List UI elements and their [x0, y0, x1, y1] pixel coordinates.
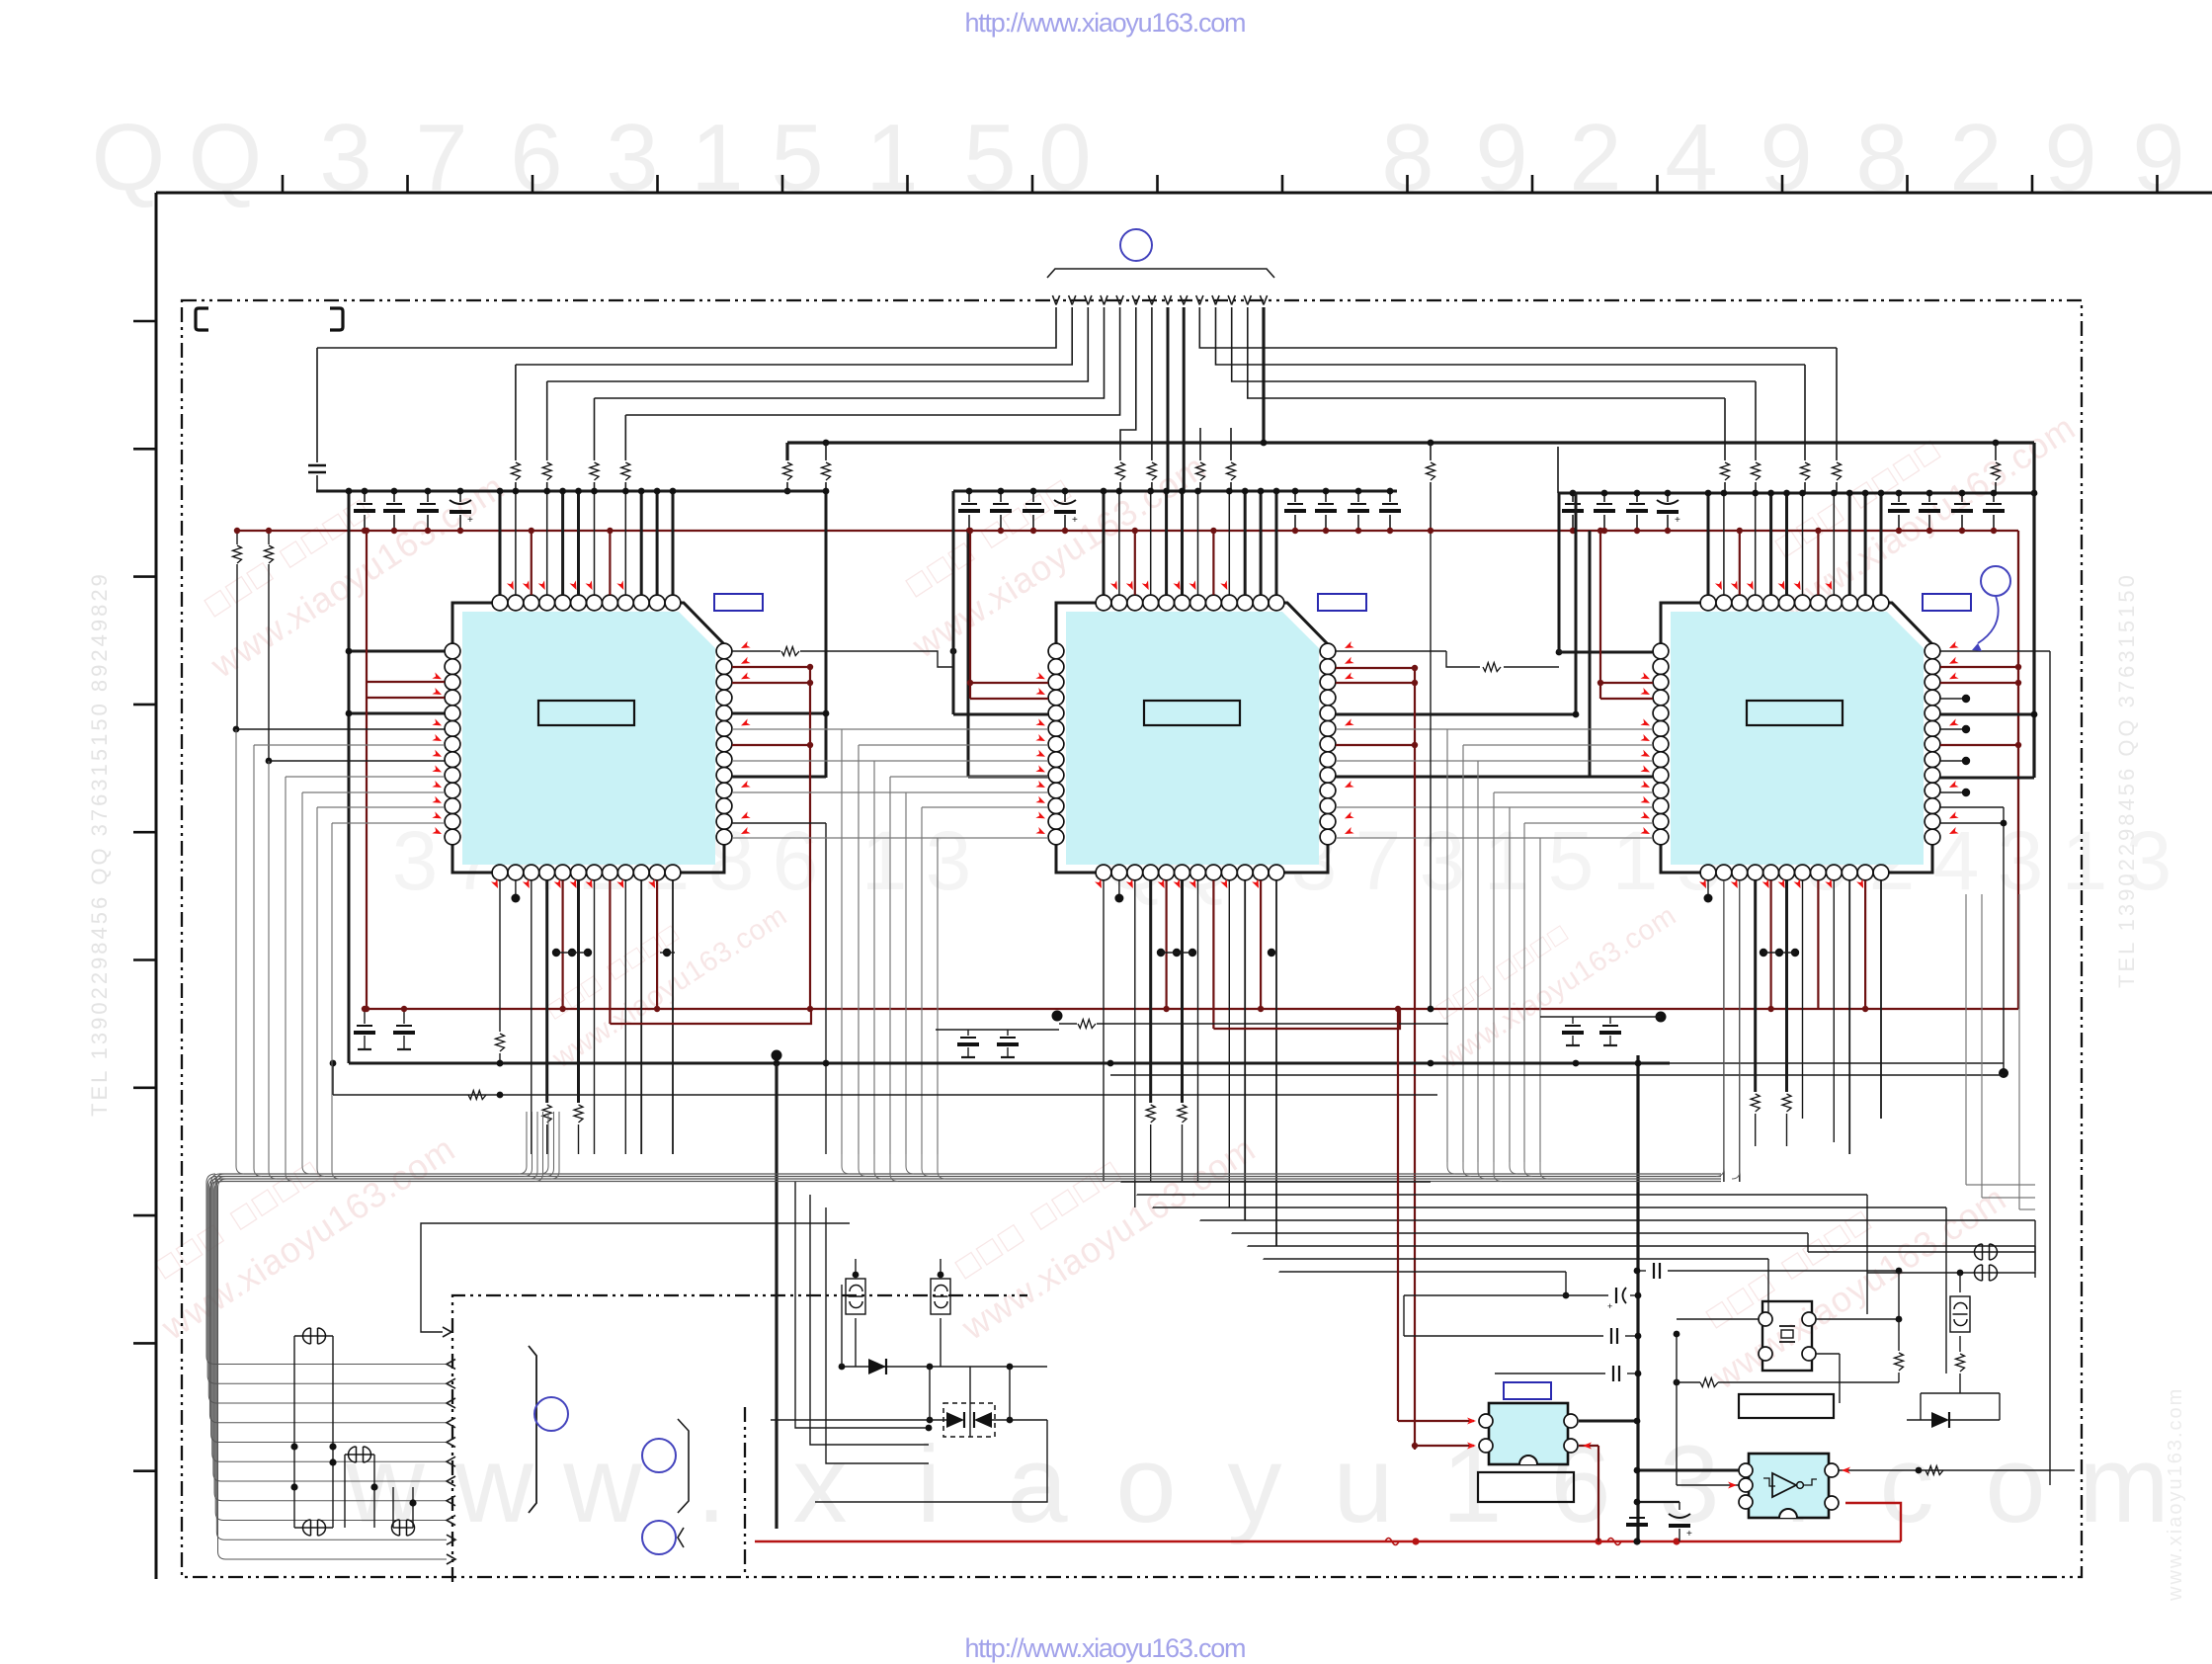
wire [1880, 493, 1883, 595]
wire [1446, 729, 1448, 1162]
wire [1151, 482, 1153, 491]
wire [967, 1030, 969, 1036]
wire [1406, 175, 1409, 193]
junction [1412, 665, 1418, 671]
wire [1661, 603, 1932, 873]
junction [1674, 1331, 1680, 1338]
wire [1572, 1017, 1574, 1024]
wire [610, 1009, 811, 1024]
wire [1064, 515, 1066, 531]
wire [206, 1174, 447, 1365]
svg-text:5: 5 [1548, 814, 1595, 907]
wire [459, 515, 461, 531]
wire [1244, 880, 1246, 1220]
wire [1463, 744, 1653, 746]
wire [1281, 175, 1284, 193]
wire [732, 650, 780, 652]
svg-text:a: a [1007, 1424, 1068, 1545]
wire [556, 952, 588, 954]
wire [358, 1048, 371, 1050]
wire [656, 175, 659, 193]
wire [1940, 728, 1966, 730]
wire [447, 1476, 455, 1486]
wire [219, 1181, 1721, 1183]
capacitor C6 [993, 503, 1009, 505]
wire [364, 1009, 366, 1024]
wire [1156, 175, 1159, 193]
junction [1634, 1499, 1641, 1506]
wire [1540, 1016, 1661, 1018]
wire [1679, 1529, 1680, 1541]
svg-text:7: 7 [415, 105, 467, 210]
wire [1575, 493, 1578, 714]
svg-text:m: m [2079, 1424, 2170, 1545]
wire [929, 1367, 931, 1420]
svg-text:+: + [1072, 515, 1078, 526]
svg-text:i: i [917, 1424, 941, 1545]
svg-text:4: 4 [1665, 105, 1717, 210]
wire [1898, 1319, 1900, 1351]
junction [1030, 528, 1036, 534]
wire [1566, 1044, 1580, 1046]
wire [1802, 493, 1804, 595]
wire [515, 880, 517, 894]
wire [2018, 894, 2020, 1209]
resistor R3 [590, 462, 599, 480]
wire [1164, 295, 1168, 305]
wire [1414, 1445, 1416, 1447]
wire [1478, 1162, 1486, 1179]
svg-text:x: x [793, 1424, 848, 1545]
junction [670, 488, 677, 495]
wire [2034, 1220, 2036, 1252]
junction [823, 1060, 830, 1067]
wire [286, 777, 293, 1182]
red signal arrow [1142, 580, 1152, 591]
junction [568, 949, 576, 957]
wire [133, 831, 156, 834]
wire [1677, 1381, 1700, 1383]
junction [1412, 680, 1418, 686]
wire [1260, 491, 1263, 595]
red signal arrow [1158, 878, 1168, 889]
junction [1556, 649, 1563, 656]
wire [922, 806, 1048, 808]
junction [401, 1006, 407, 1012]
wire [531, 880, 533, 1154]
wire [236, 531, 238, 544]
wire [345, 1454, 374, 1456]
wire [1136, 295, 1140, 305]
svg-text:www.xiaoyu163.com: www.xiaoyu163.com [2165, 1387, 2186, 1602]
wire [2034, 1246, 2036, 1271]
wire [1836, 482, 1838, 493]
svg-text:TEL 13902298456 QQ 376315150: TEL 13902298456 QQ 376315150 89249829 [87, 571, 112, 1117]
svg-text:4: 4 [1933, 814, 1980, 907]
junction [329, 1458, 336, 1465]
wire [364, 1036, 366, 1049]
wire [373, 1455, 375, 1528]
junction [927, 1364, 934, 1371]
wire [970, 698, 1048, 700]
wire [1898, 1330, 1900, 1354]
junction [1226, 488, 1233, 495]
wire [515, 482, 517, 491]
wire [236, 564, 238, 729]
wire [1817, 880, 1819, 1009]
wire [1677, 1484, 1743, 1486]
wire [1120, 295, 1124, 305]
red signal arrow [554, 878, 564, 889]
red signal arrow [1640, 718, 1651, 728]
red signal arrow [1467, 1443, 1476, 1450]
svg-text:1: 1 [2062, 814, 2108, 907]
wire [1603, 493, 1605, 502]
wire [1833, 493, 1835, 595]
wire [1294, 491, 1296, 502]
wire [1804, 365, 1806, 460]
red signal arrow [1583, 1443, 1592, 1450]
wire [1524, 1162, 1532, 1177]
junction [497, 488, 504, 495]
svg-text:9: 9 [2044, 105, 2096, 210]
wire [815, 1420, 1047, 1502]
wire [547, 307, 1089, 381]
reference balloon B [642, 1439, 676, 1472]
wire [133, 704, 156, 707]
red signal arrow [1344, 657, 1354, 667]
wire [1907, 1419, 1931, 1421]
wire [825, 482, 827, 491]
capacitor C15 [1629, 503, 1645, 505]
polarized capacitor C8 [1054, 500, 1076, 504]
resistor R7 [1752, 462, 1761, 480]
wire [133, 1342, 156, 1345]
wire [1244, 295, 1248, 305]
wire [1637, 1501, 1679, 1503]
wire [1148, 295, 1152, 305]
wire [1816, 1353, 1840, 1355]
red signal arrow [586, 878, 596, 889]
wire [1558, 493, 1561, 652]
junction [391, 528, 397, 534]
wire [624, 482, 626, 491]
feedthrough capacitor C27 [303, 1328, 326, 1344]
junction [1673, 1538, 1679, 1544]
junction [853, 1272, 860, 1279]
capacitor C23 [960, 1037, 976, 1039]
wire [421, 1223, 850, 1332]
wire [214, 1182, 447, 1501]
junction [1157, 949, 1165, 957]
wire [1447, 1162, 1455, 1174]
svg-text:+: + [1675, 515, 1680, 526]
wire [1509, 807, 1511, 1162]
red signal arrow [432, 718, 443, 728]
polarized capacitor C16 [1657, 500, 1679, 504]
wire [1430, 443, 1432, 460]
wire [209, 1182, 447, 1423]
capacitor C7 [1025, 503, 1041, 505]
junction [807, 1006, 813, 1012]
junction [938, 1272, 944, 1279]
wire [1197, 491, 1199, 595]
capacitor C19 [1954, 503, 1970, 505]
junction [1428, 440, 1434, 447]
wire [397, 1048, 411, 1050]
wire [1802, 880, 1804, 1119]
junction [1052, 1011, 1063, 1022]
wire [133, 448, 156, 451]
wire [133, 1469, 156, 1472]
wire [2156, 175, 2159, 193]
junction [1962, 789, 1970, 796]
svg-text:2: 2 [1569, 105, 1621, 210]
wire [1295, 1294, 1404, 1296]
svg-text:3: 3 [606, 105, 658, 210]
wire [1898, 1373, 1900, 1382]
junction [1916, 1467, 1923, 1474]
junction [1831, 490, 1838, 497]
wire [1667, 515, 1669, 531]
red signal arrow [432, 827, 443, 837]
capacitor C10 [1318, 503, 1334, 505]
junction [823, 440, 830, 447]
junction [1242, 488, 1249, 495]
wire [1531, 175, 1534, 193]
junction [654, 1006, 660, 1012]
wire [825, 491, 828, 778]
wire [786, 482, 788, 491]
wire [1165, 880, 1167, 1009]
wire [1152, 295, 1156, 305]
crystal oscillator X1 module [1762, 1301, 1812, 1371]
capacitor C12 [1382, 503, 1398, 505]
wire [624, 415, 626, 460]
resistor R2 [542, 462, 551, 480]
junction [772, 1050, 782, 1061]
wire [1667, 493, 1669, 502]
wire [1839, 1469, 2075, 1471]
junction [1173, 949, 1181, 957]
junction [1896, 528, 1902, 534]
junction [1962, 725, 1970, 733]
junction [1292, 528, 1298, 534]
wire [1637, 1270, 1646, 1272]
wire [1940, 777, 2034, 780]
red signal arrow [570, 580, 580, 591]
capacitor C11 [1351, 503, 1366, 505]
wire [1389, 515, 1391, 531]
wire [219, 1173, 1721, 1175]
wire [1786, 1114, 1788, 1146]
wire [1966, 1184, 2035, 1186]
wire [219, 1176, 1721, 1178]
wire [499, 491, 502, 595]
wire [1260, 295, 1264, 305]
junction [926, 1425, 933, 1432]
wire [317, 807, 325, 1177]
svg-text:.: . [696, 1424, 727, 1545]
wire [1864, 493, 1867, 595]
capacitor C31 [1629, 1517, 1645, 1519]
red signal arrow [432, 796, 443, 806]
junction [266, 758, 273, 765]
diode D2 [946, 1412, 964, 1428]
wire [1679, 1502, 1680, 1510]
wire [344, 1455, 346, 1528]
wire [1031, 175, 1034, 193]
wire [967, 531, 970, 777]
junction [1062, 488, 1069, 495]
wire [1940, 698, 1966, 700]
junction [266, 528, 272, 534]
wire [447, 1496, 455, 1506]
junction [1258, 488, 1265, 495]
wire [1279, 1271, 1566, 1273]
junction [1957, 1270, 1964, 1277]
capacitor C36 [1613, 1366, 1619, 1381]
wire [678, 1528, 684, 1547]
wire [269, 761, 277, 1179]
junction [1962, 695, 1970, 703]
capacitor C17 [1891, 503, 1907, 505]
diode D1 [868, 1359, 886, 1374]
wire [672, 880, 674, 1154]
wire [207, 1177, 447, 1384]
wire [1949, 1419, 2000, 1421]
wire [732, 776, 826, 779]
wire [1816, 1318, 1899, 1320]
wire [219, 1178, 1721, 1180]
wire [1494, 1259, 1496, 1373]
wire [1248, 1245, 2035, 1247]
wire [268, 531, 270, 544]
filter capacitor network C38 [931, 1279, 950, 1314]
page border frame [156, 193, 2212, 1579]
wire [459, 491, 461, 502]
red signal arrow [1948, 641, 1959, 651]
polarized capacitor C33 [1615, 1288, 1617, 1303]
junction [1323, 528, 1329, 534]
junction [346, 488, 353, 495]
wire [732, 822, 826, 824]
wire [1716, 880, 1724, 1177]
wire [859, 744, 1048, 746]
wire [660, 952, 675, 954]
wire [1137, 1194, 1867, 1196]
red signal arrow [538, 580, 548, 591]
wire [1839, 1354, 1841, 1403]
wire [1260, 880, 1262, 1009]
wire [1232, 295, 1236, 305]
wire [1199, 295, 1203, 305]
junction [1387, 488, 1394, 495]
junction [967, 680, 973, 686]
junction [1783, 490, 1790, 497]
red signal arrow [1126, 878, 1136, 889]
junction [1791, 949, 1799, 957]
wire [1510, 1162, 1517, 1174]
svg-text:9: 9 [1760, 105, 1812, 210]
svg-text:+: + [1686, 1529, 1692, 1539]
wire [1007, 1030, 1009, 1036]
wire [1493, 792, 1495, 1162]
junction [1926, 528, 1932, 534]
junction [1570, 490, 1577, 497]
wire [1325, 491, 1327, 502]
red signal arrow [432, 811, 443, 821]
svg-text:u: u [1333, 1424, 1393, 1545]
red signal arrow [1948, 657, 1959, 667]
wire [316, 348, 318, 462]
junction [1428, 528, 1434, 534]
wire [1165, 491, 1168, 595]
wire [841, 729, 843, 1154]
wire [447, 1554, 455, 1564]
wire [133, 320, 156, 323]
wire [364, 491, 366, 502]
red signal arrow [1831, 1500, 1840, 1507]
junction [1737, 528, 1743, 534]
svg-text:y: y [1228, 1424, 1282, 1545]
wire [1755, 482, 1757, 493]
feedthrough capacitor C28 [303, 1520, 326, 1536]
wire [1183, 307, 1186, 491]
wire [392, 1487, 394, 1528]
junction [1428, 1006, 1434, 1013]
wire [1494, 791, 1653, 793]
wire [1670, 1062, 2004, 1064]
svg-text:o: o [1115, 1424, 1176, 1545]
feedthrough capacitor C30 [392, 1520, 415, 1536]
junction [1595, 1538, 1601, 1544]
wire [858, 745, 860, 1154]
wire [1032, 491, 1034, 502]
wire [1118, 880, 1120, 894]
wire [1732, 880, 1740, 1179]
wire [1200, 1219, 2035, 1221]
wire [905, 792, 907, 1154]
wire [1150, 1124, 1152, 1182]
wire [1001, 1056, 1015, 1058]
wire [577, 880, 580, 1103]
junction [575, 488, 582, 495]
wire [755, 1540, 1901, 1543]
capacitor C26 [1602, 1025, 1618, 1027]
wire [364, 1008, 2018, 1010]
resistor R25 [1178, 1105, 1187, 1123]
junction [1412, 1538, 1419, 1544]
wire [594, 398, 596, 460]
wire [1336, 837, 1653, 839]
wire [1557, 447, 1559, 493]
wire [1637, 1469, 1739, 1472]
junction [663, 949, 671, 957]
junction [2015, 742, 2021, 748]
wire [732, 760, 1048, 762]
header bracket labels [196, 308, 208, 330]
wire [1336, 760, 1653, 762]
junction [1959, 490, 1966, 497]
resistor R9 [1116, 462, 1125, 480]
wire [516, 307, 1072, 365]
wire [519, 1112, 527, 1174]
wire [1052, 295, 1056, 305]
wire [515, 365, 517, 460]
red signal arrow [1344, 641, 1354, 651]
junction [1355, 488, 1362, 495]
